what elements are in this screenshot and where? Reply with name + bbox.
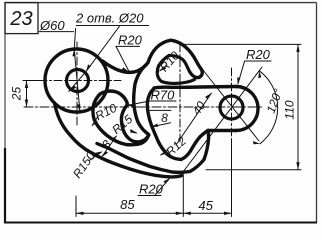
dimension 8 lower arrows — [102, 136, 117, 157]
underline 2 otv O20 — [76, 25, 149, 27]
slot outer sweep boundary — [97, 131, 209, 173]
svg-text:R20: R20 — [246, 47, 271, 62]
big circle O60 — [45, 49, 108, 112]
underline R70 — [150, 100, 177, 102]
arrow 85 left — [76, 212, 84, 215]
arrow R20 bottom — [163, 178, 170, 184]
leader R20 bottom — [155, 179, 170, 196]
underline R20 neck — [116, 45, 140, 47]
svg-text:8: 8 — [161, 111, 168, 125]
radial leg line through hole toward hook tip — [203, 70, 259, 141]
arrow 85 right — [176, 212, 184, 215]
leader R150 — [90, 152, 102, 160]
centerline vertical mid lobe — [179, 44, 181, 142]
arrow R12 — [160, 151, 167, 156]
leader R70 — [128, 101, 150, 105]
leader R20 right — [238, 61, 245, 84]
svg-text:85: 85 — [120, 197, 135, 212]
dimension line 85-45 — [76, 212, 232, 214]
leader O60 diameter line — [74, 29, 80, 113]
centerline vertical right hole — [231, 68, 233, 140]
extension line 110 bottom — [206, 169, 301, 171]
extension line 85 left — [75, 196, 77, 217]
svg-text:R20: R20 — [139, 182, 164, 197]
arrow 8 upper — [151, 124, 159, 128]
arrow 120 bottom — [253, 141, 260, 144]
leader R20 neck — [116, 46, 129, 70]
extension line 25 top — [23, 80, 45, 82]
leader O20 holes — [69, 26, 120, 92]
leader R10 paw — [92, 117, 97, 126]
extension line 45 right / below hole — [231, 140, 233, 217]
arrow O20 top — [86, 64, 91, 71]
right hole O20 — [220, 96, 243, 119]
arrow R10 paw — [92, 120, 98, 127]
arrow R10 hook — [159, 66, 166, 71]
island top edge (obround top) — [154, 87, 236, 89]
slot left boundary (R70 upper sweep) — [134, 65, 149, 135]
arrow 45 right — [224, 212, 232, 215]
frame left line lower darker part — [4, 148, 6, 223]
arrow 8 lower right — [111, 136, 117, 142]
arrow 40 — [205, 93, 212, 99]
arrow R150 — [95, 151, 102, 155]
arrow R15 paw — [130, 129, 137, 133]
centerline horizontal left circle — [24, 80, 121, 82]
number box — [5, 3, 38, 34]
svg-text:R20: R20 — [118, 33, 143, 48]
extension line 110 top — [183, 43, 301, 45]
arrow O60 bottom — [77, 104, 80, 111]
obround right cap R20 — [236, 87, 258, 131]
arrow R20 right — [237, 77, 240, 85]
bottom outline R150 — [55, 103, 182, 177]
leader R10 hook — [160, 65, 167, 71]
svg-text:Ø60: Ø60 — [39, 18, 65, 33]
underline R20 right — [245, 60, 271, 62]
arrow O60 top — [72, 49, 75, 56]
arrow 110 bottom — [296, 162, 299, 170]
arrow 25 top — [25, 81, 28, 89]
svg-text:25: 25 — [10, 87, 24, 102]
dimension line 25 — [26, 81, 28, 108]
svg-text:R70: R70 — [151, 88, 176, 103]
hook outer arc — [148, 40, 202, 69]
hook tip cap — [197, 70, 203, 78]
leader R15 paw — [131, 130, 137, 133]
frame top line — [5, 2, 317, 4]
arrow O20 bottom — [69, 85, 76, 91]
island pendant S-edge — [147, 89, 208, 160]
leader 8 upper — [151, 123, 171, 127]
frame left line — [4, 3, 6, 222]
obround bottom edge — [208, 129, 236, 132]
underline O60 — [39, 31, 74, 33]
svg-text:110: 110 — [283, 100, 297, 119]
arrow 120 top — [258, 71, 261, 79]
centerline horizontal long through right hole — [24, 106, 263, 108]
left hole O20 — [67, 70, 89, 92]
arrow 25 bottom — [25, 100, 28, 108]
arrow 8 lower left — [102, 151, 108, 157]
leader R12 — [161, 150, 169, 155]
neck arc R20 top — [103, 61, 149, 72]
dimension line 40 — [176, 93, 212, 145]
radial leg line through hole toward bottom lobe — [180, 67, 262, 176]
svg-text:45: 45 — [198, 198, 213, 213]
svg-text:2 отв. Ø20: 2 отв. Ø20 — [75, 11, 144, 26]
arrow R70 — [127, 104, 135, 107]
arrow 110 top — [296, 44, 299, 52]
arrow 45 left — [183, 212, 191, 215]
paw tab outline — [93, 91, 149, 145]
extension line 85/45 middle — [182, 172, 184, 217]
underline R20 bottom — [138, 195, 161, 197]
svg-text:23: 23 — [9, 8, 32, 30]
dimension line 110 — [297, 44, 299, 169]
hook inner curl R10 — [157, 55, 196, 83]
frame bottom line — [4, 222, 317, 224]
angle arc 120 — [259, 71, 277, 144]
shelf 8 upper — [147, 109, 172, 111]
arrow R20 neck — [122, 67, 130, 72]
frame right line — [316, 3, 318, 223]
centerline vertical left circle — [76, 42, 78, 126]
